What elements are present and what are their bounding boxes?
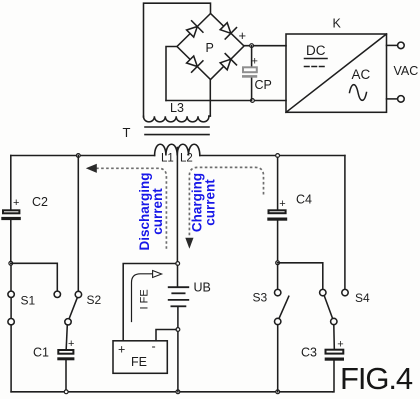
node C4 bottom [276, 261, 280, 265]
node bottom center [176, 390, 180, 394]
svg-text:K: K [333, 17, 342, 31]
capacitor CP leads [251, 46, 253, 67]
svg-text:DC: DC [306, 43, 326, 58]
switch S2 blade [69, 298, 77, 319]
top rail right of transformer [200, 155, 345, 157]
secondary winding L1 L2 [155, 144, 200, 155]
svg-text:AC: AC [352, 67, 371, 82]
wire UB to bottom rail [177, 331, 179, 391]
wire branch to S4 / C3 switch [278, 263, 323, 290]
wire C3 to bottom rail corner [333, 361, 334, 392]
svg-text:C2: C2 [32, 195, 48, 209]
svg-text:L3: L3 [170, 101, 184, 115]
top rail left of transformer [11, 155, 155, 157]
converter K diagonal [286, 34, 387, 112]
switch S1 terminals and blade [10, 265, 12, 291]
diode bridge top-right [220, 23, 236, 39]
svg-text:UB: UB [194, 281, 211, 295]
bottom rail [11, 391, 333, 393]
capacitor C2 leads [10, 156, 12, 210]
wire S2 to C1 [66, 325, 67, 349]
svg-text:+: + [13, 197, 19, 209]
svg-text:FIG.4: FIG.4 [340, 361, 413, 396]
node bottom S3 [276, 390, 280, 394]
svg-text:C4: C4 [296, 193, 312, 207]
blade to C3 [324, 296, 332, 319]
switch S2 [77, 156, 79, 292]
wire L3 right end up to bridge bottom corner [209, 115, 210, 117]
center tap wire [176, 148, 178, 262]
capacitor C4 plates [267, 210, 287, 220]
node S2 feed [76, 154, 80, 158]
switch S3 [277, 265, 279, 290]
svg-text:S4: S4 [355, 291, 370, 305]
terminal circle S1 right [54, 291, 60, 297]
node left mid [9, 261, 13, 265]
capacitor C1 plates [57, 350, 74, 360]
wire dc negative rail to converter K [166, 100, 286, 102]
svg-text:VAC: VAC [394, 64, 419, 78]
wire branch to S1 open terminal [11, 263, 58, 291]
svg-text:T: T [123, 125, 131, 140]
wire to C3 [333, 325, 336, 349]
svg-text:+: + [68, 338, 74, 350]
svg-text:L1: L1 [161, 153, 174, 165]
capacitor C3 plates [325, 350, 344, 361]
battery UB bottom lead [177, 306, 179, 327]
transformer T core lines [145, 126, 209, 128]
DC underline dashed [305, 66, 328, 68]
capacitor C4 leads [277, 157, 279, 209]
wire: L3 left end up and over to bridge top corner [144, 3, 211, 117]
wire bridge - corner down to dc rail [166, 47, 177, 101]
svg-text:C3: C3 [301, 346, 317, 360]
diode bridge bottom-right [220, 54, 236, 70]
wire S3 to bottom rail [277, 325, 279, 392]
DC underline solid [305, 58, 328, 60]
svg-text:S3: S3 [253, 291, 268, 305]
diode bridge bottom-left [187, 56, 203, 72]
inductor L3 winding [144, 116, 209, 122]
diode bridge top-left [187, 21, 203, 37]
diode bridge P diamond outline [177, 14, 244, 80]
svg-text:+: + [279, 198, 285, 210]
node bridge + output [250, 44, 254, 48]
node CP bottom [251, 99, 255, 103]
output terminal bottom [387, 98, 398, 100]
node C4 feed [276, 154, 280, 158]
svg-text:+: + [239, 28, 247, 43]
converter K box [286, 34, 387, 112]
output terminal top [387, 44, 398, 46]
node UB bottom FE - junction [176, 328, 180, 332]
FE box [113, 341, 167, 374]
svg-text:S1: S1 [21, 294, 36, 308]
svg-text:+: + [252, 56, 258, 68]
node center tap junction [176, 262, 180, 266]
svg-text:I FE: I FE [139, 289, 151, 309]
wire S1 to bottom rail [10, 325, 12, 392]
discharging current dashed arrow [97, 168, 167, 249]
svg-text:+: + [337, 339, 343, 351]
switch S3 blade open [279, 296, 288, 317]
svg-text:S2: S2 [87, 293, 102, 307]
wire FE + lead [123, 264, 176, 341]
wire C1 to bottom rail [65, 360, 67, 392]
capacitor C2 plates [1, 210, 21, 220]
right rail from top to S4 terminal [344, 156, 346, 290]
svg-text:Chargingcurrent: Chargingcurrent [190, 173, 218, 232]
svg-text:C1: C1 [33, 346, 49, 360]
IFE arrow [132, 274, 153, 322]
wire FE - lead [156, 330, 176, 341]
capacitor CP plates [242, 67, 257, 77]
AC sine symbol [350, 85, 367, 101]
svg-text:FE: FE [131, 355, 147, 369]
battery UB top lead [177, 265, 179, 287]
svg-text:L2: L2 [180, 153, 193, 165]
svg-text:P: P [206, 41, 214, 55]
svg-text:CP: CP [255, 78, 272, 92]
svg-text:-: - [152, 340, 156, 354]
charging current dashed arrow [189, 167, 263, 237]
svg-text:+: + [118, 343, 125, 357]
node bottom C1 [64, 390, 68, 394]
wire bridge + output to converter K [244, 45, 286, 47]
battery UB plates [169, 287, 189, 306]
